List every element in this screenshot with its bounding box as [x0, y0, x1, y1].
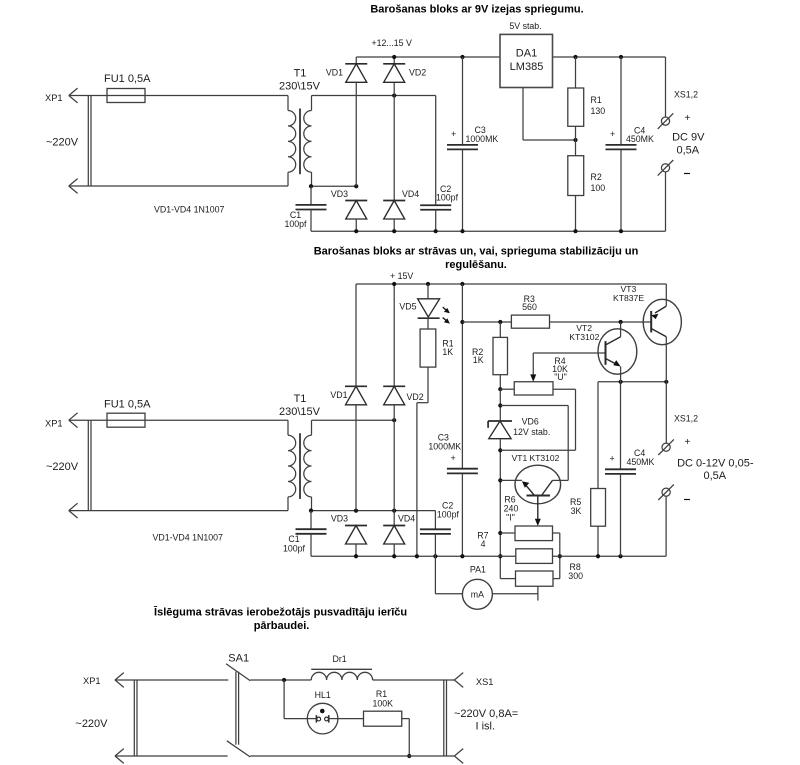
junction — [498, 448, 502, 452]
svg-text:100pf: 100pf — [437, 510, 460, 520]
inductor Dr1 — [311, 672, 372, 680]
svg-text:pārbaudei.: pārbaudei. — [254, 620, 310, 632]
zener diode VD6 — [488, 420, 512, 422]
inductor Dr1 core — [311, 668, 372, 670]
wire top feed — [115, 679, 228, 681]
wire VD2 line (2) — [393, 284, 395, 386]
wire VD6 below — [499, 439, 501, 579]
wire VT1 collector — [553, 479, 569, 481]
wire VT3 emitter — [665, 284, 667, 306]
svg-text:~220V: ~220V — [46, 137, 79, 149]
svg-text:+: + — [685, 437, 691, 448]
svg-text:Īslēguma strāvas ierobežotājs: Īslēguma strāvas ierobežotājs pusvadītāj… — [153, 607, 407, 619]
svg-text:VD2: VD2 — [409, 68, 426, 78]
diode VD3 — [345, 201, 367, 220]
svg-text:+: + — [610, 129, 615, 139]
svg-text:LM385: LM385 — [510, 61, 544, 73]
junction — [309, 509, 313, 513]
ammeter PA1 wire left — [434, 556, 436, 594]
junction — [460, 320, 464, 324]
capacitor C3 (2) — [461, 284, 463, 469]
transistor VT2 — [598, 329, 637, 374]
svg-text:XP1: XP1 — [83, 676, 101, 686]
svg-text:XS1,2: XS1,2 — [674, 414, 698, 424]
junction rail (2) — [392, 282, 396, 286]
svg-text:SA1: SA1 — [228, 653, 249, 665]
svg-text:VT1 KT3102: VT1 KT3102 — [512, 453, 560, 463]
wire VD3 tail — [355, 219, 357, 231]
connector XS1 pins — [443, 680, 445, 756]
svg-text:"U": "U" — [554, 372, 567, 382]
led VD5 — [427, 284, 429, 299]
svg-text:T1: T1 — [294, 393, 307, 405]
ammeter PA1 wire right — [492, 593, 538, 595]
svg-text:Dr1: Dr1 — [333, 654, 347, 664]
svg-text:+: + — [451, 129, 456, 139]
junction — [498, 320, 502, 324]
svg-text:4: 4 — [481, 539, 486, 549]
svg-text:VD3: VD3 — [331, 189, 348, 199]
resistor R1 — [575, 57, 577, 88]
capacitor C2 (2) — [434, 511, 436, 530]
junction — [309, 184, 313, 188]
svg-text:VD4: VD4 — [402, 189, 419, 199]
resistor R8 — [516, 571, 554, 586]
svg-text:230\15V: 230\15V — [279, 81, 321, 93]
svg-text:PA1: PA1 — [470, 565, 486, 575]
zener VD6 line — [499, 389, 501, 421]
fuse FU1 — [107, 89, 145, 103]
junction — [282, 678, 286, 682]
diode VD3 (2) — [345, 526, 367, 545]
power rail +12V — [356, 56, 500, 58]
wire VD1 line (2) — [355, 284, 357, 386]
svg-text:R1: R1 — [376, 689, 387, 699]
wire VT2 base — [533, 352, 605, 354]
switch SA1 blade top — [226, 664, 250, 681]
svg-text:VD3: VD3 — [331, 514, 348, 524]
wire VT1 emitter — [500, 479, 522, 481]
svg-text:12V stab.: 12V stab. — [513, 427, 550, 437]
wire output minus (2) — [665, 496, 667, 556]
wire VD4 tail (2) — [393, 544, 395, 556]
wire VD6 box bottom — [500, 449, 575, 451]
wire after switch top — [250, 679, 311, 681]
svg-text:1K: 1K — [442, 347, 453, 357]
potentiometer R6 — [515, 526, 553, 541]
svg-text:R2: R2 — [591, 172, 602, 182]
connector XS1 pin plus (2) — [658, 439, 674, 455]
led VD5 arrows — [443, 307, 450, 324]
wire R6 right — [553, 532, 560, 534]
wire VD3 tail (2) — [355, 544, 357, 556]
resistor R7 — [516, 549, 553, 564]
switch SA1 blade bottom — [227, 741, 251, 757]
wire VT2 emitter — [620, 367, 622, 382]
svg-text:130: 130 — [591, 106, 606, 116]
junction — [619, 320, 623, 324]
connector XP1 pins — [87, 96, 89, 187]
diode VD2 — [383, 64, 405, 83]
svg-text:HL1: HL1 — [315, 690, 331, 700]
junction — [498, 403, 502, 407]
junction bottom rail — [434, 229, 438, 233]
svg-text:VD2: VD2 — [407, 392, 424, 402]
wire secondary bottom — [311, 185, 356, 187]
resistor R2 (2) — [499, 322, 501, 337]
wire HL1 to R1 — [338, 718, 364, 720]
wire R1 down — [402, 718, 410, 720]
connector XS1 arrows — [454, 673, 463, 688]
resistor R1 (3) — [364, 711, 402, 726]
junction — [407, 754, 411, 758]
svg-text:560: 560 — [522, 302, 537, 312]
svg-text:DA1: DA1 — [516, 48, 537, 60]
svg-text:VD5: VD5 — [399, 302, 416, 312]
junction — [558, 554, 562, 558]
resistor R5 — [597, 382, 599, 489]
wire VT2 collector — [620, 322, 622, 337]
capacitor C1 (2) — [310, 511, 312, 530]
svg-text:230\15V: 230\15V — [279, 406, 321, 418]
wire output minus — [665, 172, 667, 231]
connector XP1 arrows (2) — [69, 413, 78, 428]
svg-text:+ 15V: + 15V — [390, 271, 413, 281]
svg-text:XP1: XP1 — [45, 93, 63, 103]
transformer T1 (2) — [288, 420, 312, 510]
fuse FU1 (2) — [107, 413, 145, 427]
svg-text:VD6: VD6 — [522, 417, 539, 427]
resistor R1 (2) — [420, 329, 436, 367]
wire R3 to VT3 base — [550, 321, 652, 323]
wire VD4 tail — [393, 219, 395, 231]
capacitor C1 — [310, 186, 312, 205]
wire secondary bottom (2) — [311, 510, 435, 512]
svg-text:VD1: VD1 — [326, 68, 343, 78]
svg-text:100pf: 100pf — [283, 544, 306, 554]
connector XP1 pins (2) — [87, 420, 89, 510]
wire secondary top — [312, 95, 436, 97]
capacitor C2 — [435, 96, 437, 206]
wire bottom primary (2) — [69, 510, 288, 512]
wire VT3 collector — [665, 337, 667, 382]
svg-text:300: 300 — [568, 571, 583, 581]
svg-text:+: + — [685, 113, 691, 124]
potentiometer R4 — [500, 388, 514, 390]
svg-text:1K: 1K — [473, 355, 484, 365]
wire VD2 line — [393, 57, 395, 64]
connector XP1 pins (3) — [133, 680, 135, 756]
svg-text:DC 9V: DC 9V — [672, 132, 705, 144]
wire R6 left — [500, 532, 515, 534]
svg-text:100pf: 100pf — [284, 219, 307, 229]
svg-text:VD4: VD4 — [398, 514, 415, 524]
wire DA1 adj pin — [522, 88, 524, 141]
lamp HL1 — [307, 703, 338, 734]
svg-text:100: 100 — [591, 183, 606, 193]
diode VD1 — [345, 64, 367, 83]
wire VD1 line — [355, 57, 357, 64]
connector XS1 pin plus — [658, 113, 674, 129]
wire after Dr1 — [373, 679, 455, 681]
svg-text:KT3102: KT3102 — [569, 332, 599, 342]
diode VD4 (2) — [383, 526, 405, 545]
label minus (2) — [684, 499, 690, 501]
wire VD6 box top — [500, 405, 568, 407]
junction — [573, 138, 577, 142]
wire base feed — [462, 321, 511, 323]
transistor VT3 — [643, 299, 681, 344]
wire output plus — [665, 57, 667, 117]
svg-text:100K: 100K — [373, 699, 394, 709]
svg-text:XP1: XP1 — [45, 419, 63, 429]
power rail +15V — [356, 283, 666, 285]
connector XP1 arrows — [69, 88, 78, 103]
ground rail bottom — [311, 230, 666, 232]
connector XP1 arrows (3) — [115, 673, 124, 688]
svg-text:T1: T1 — [294, 68, 307, 80]
wire bottom primary — [69, 185, 288, 187]
svg-text:+: + — [451, 453, 456, 463]
wire top primary — [69, 95, 288, 97]
resistor R3 — [511, 315, 549, 328]
svg-text:3K: 3K — [571, 506, 582, 516]
svg-text:mA: mA — [471, 590, 484, 600]
svg-text:+: + — [610, 454, 615, 464]
svg-text:5V stab.: 5V stab. — [509, 21, 541, 31]
svg-text:Barošanas bloks ar 9V izejas s: Barošanas bloks ar 9V izejas spriegumu. — [370, 4, 583, 16]
op-amp DA1 regulator box — [500, 34, 553, 87]
wire R1 jog to ground — [427, 367, 429, 403]
svg-text:~220V: ~220V — [46, 461, 79, 473]
svg-text:FU1 0,5A: FU1 0,5A — [104, 73, 151, 85]
svg-text:1000MK: 1000MK — [428, 442, 461, 452]
svg-text:VD1-VD4 1N1007: VD1-VD4 1N1007 — [154, 205, 225, 215]
svg-text:FU1 0,5A: FU1 0,5A — [104, 399, 151, 411]
capacitor C4 (2) — [620, 382, 622, 470]
svg-text:VD1: VD1 — [330, 390, 347, 400]
svg-text:450MK: 450MK — [626, 134, 654, 144]
capacitor C4 — [620, 57, 622, 145]
svg-text:0,5A: 0,5A — [676, 145, 699, 157]
svg-text:100pf: 100pf — [436, 193, 459, 203]
diode VD4 — [383, 201, 405, 220]
transformer T1 — [288, 96, 312, 187]
svg-text:R1: R1 — [591, 95, 602, 105]
junction rail — [392, 55, 396, 59]
wire bottom feed — [115, 755, 228, 757]
junction — [392, 93, 396, 97]
svg-text:Barošanas bloks ar strāvas un,: Barošanas bloks ar strāvas un, vai, spri… — [314, 246, 639, 258]
junction — [619, 380, 623, 384]
svg-text:DC 0-12V 0,05-: DC 0-12V 0,05- — [677, 458, 754, 470]
svg-text:XS1: XS1 — [476, 677, 494, 687]
svg-text:1000MK: 1000MK — [466, 134, 499, 144]
wire secondary top (2) — [312, 419, 395, 421]
wire HL1 branch — [283, 680, 285, 719]
svg-text:"I": "I" — [506, 513, 515, 523]
junction — [392, 418, 396, 422]
junction bottom rail (2) — [354, 554, 358, 558]
connector XS1 pin minus (2) — [658, 484, 674, 500]
svg-text:XS1,2: XS1,2 — [674, 90, 698, 100]
junction — [498, 387, 502, 391]
label minus — [684, 173, 690, 175]
svg-text:~220V 0,8A=: ~220V 0,8A= — [454, 708, 518, 720]
transistor VT1 — [515, 465, 561, 504]
resistor R2 — [575, 140, 577, 156]
diode VD1 (2) — [345, 386, 367, 405]
wire top primary (2) — [69, 419, 288, 421]
diode VD2 (2) — [383, 386, 405, 405]
svg-text:regulēšanu.: regulēšanu. — [445, 259, 507, 271]
potentiometer R4 wiper — [532, 353, 534, 376]
wire output node — [598, 381, 666, 383]
wire after switch bottom — [250, 755, 454, 757]
capacitor C3 — [462, 57, 464, 145]
wire R8 tap — [537, 586, 539, 600]
svg-text:0,5A: 0,5A — [703, 470, 726, 482]
svg-text:~220V: ~220V — [75, 718, 108, 730]
switch SA1 link — [235, 672, 237, 745]
connector XS1 pin minus — [658, 160, 674, 176]
svg-text:450MK: 450MK — [627, 457, 655, 467]
svg-text:I isl.: I isl. — [476, 721, 496, 733]
ground rail bottom (2) — [311, 555, 516, 557]
svg-text:KT837E: KT837E — [613, 293, 644, 303]
svg-text:VD1-VD4 1N1007: VD1-VD4 1N1007 — [153, 533, 224, 543]
svg-text:C1: C1 — [288, 534, 299, 544]
ammeter PA1 — [462, 579, 492, 609]
svg-text:+12...15 V: +12...15 V — [372, 38, 412, 48]
